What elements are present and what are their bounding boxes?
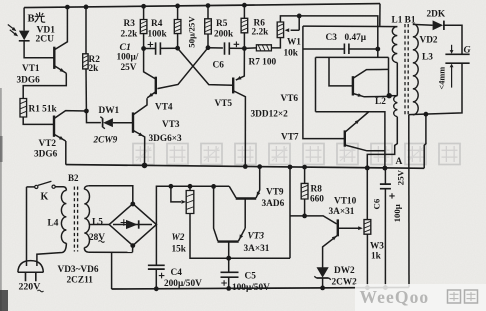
svg-text:2CU: 2CU [36,35,55,45]
svg-text:R5: R5 [216,19,228,29]
svg-text:L4: L4 [48,219,59,229]
svg-text:C3: C3 [326,33,338,43]
svg-text:2CW2: 2CW2 [332,278,358,288]
svg-text:2k: 2k [89,64,100,74]
svg-text:15k: 15k [172,245,187,255]
svg-text:50μ/25V: 50μ/25V [187,16,197,48]
svg-text:VD2: VD2 [420,36,438,46]
svg-text:C5: C5 [245,272,257,282]
svg-text:A: A [396,157,403,167]
svg-text:W3: W3 [370,242,384,252]
svg-text:3AD6: 3AD6 [262,199,285,209]
svg-text:2.2k: 2.2k [252,28,270,38]
svg-text:25V: 25V [121,63,137,73]
svg-text:2DK: 2DK [427,10,446,20]
svg-text:B: B [28,14,35,25]
svg-text:G: G [464,45,471,56]
svg-text:K: K [41,192,49,203]
svg-text:L3: L3 [422,53,433,63]
svg-text:R8: R8 [311,185,323,195]
svg-text:220V: 220V [19,282,41,293]
svg-text:25V: 25V [396,169,406,185]
svg-text:DW1: DW1 [99,106,120,116]
svg-text:C4: C4 [171,268,183,278]
svg-text:C1: C1 [120,42,131,53]
svg-text:VT5: VT5 [215,99,233,109]
svg-text:100μ: 100μ [392,204,402,222]
svg-text:10k: 10k [284,49,299,59]
svg-text:0.47μ: 0.47μ [345,33,367,43]
svg-text:W2: W2 [172,233,185,243]
svg-text:3A×31: 3A×31 [244,244,270,254]
svg-text:3DG6: 3DG6 [17,76,41,86]
svg-text:VT3: VT3 [162,120,180,130]
svg-text:100μ/: 100μ/ [117,53,139,63]
svg-text:28V: 28V [89,233,105,243]
svg-text:VT7: VT7 [281,133,299,143]
svg-text:R3: R3 [124,19,136,29]
svg-text:3A×31: 3A×31 [329,207,355,217]
svg-text:VT2: VT2 [39,139,57,149]
svg-text:100k: 100k [148,30,168,40]
svg-text:VT10: VT10 [334,197,357,207]
svg-text:B2: B2 [68,173,79,183]
svg-text:3DD12×2: 3DD12×2 [251,110,289,120]
svg-text:L5: L5 [92,218,103,228]
svg-text:R7 100: R7 100 [249,58,277,68]
svg-text:VT3: VT3 [248,232,265,242]
svg-text:C6: C6 [213,61,225,71]
svg-text:200k: 200k [214,30,234,40]
svg-text:C6: C6 [372,198,382,209]
svg-text:200μ/50V: 200μ/50V [164,279,202,289]
svg-text:W1: W1 [287,38,301,48]
svg-text:L2: L2 [375,97,386,107]
svg-text:660: 660 [310,195,324,205]
svg-text:VT6: VT6 [281,94,299,104]
svg-text:3DG6: 3DG6 [34,150,58,160]
svg-text:3DG6×3: 3DG6×3 [149,134,183,144]
svg-text:VD3~VD6: VD3~VD6 [58,265,99,275]
svg-text:100μ/50V: 100μ/50V [232,283,270,293]
svg-text:VT9: VT9 [266,188,284,198]
svg-text:1k: 1k [371,252,382,262]
svg-text:VT4: VT4 [155,103,173,113]
svg-text:2CZ11: 2CZ11 [67,276,94,286]
svg-text:<4mm: <4mm [438,67,447,90]
svg-text:L1 B1: L1 B1 [392,16,416,26]
svg-text:2CW9: 2CW9 [93,136,118,146]
svg-text:R4: R4 [151,19,163,29]
svg-text:WeeQoo: WeeQoo [360,287,430,307]
svg-text:R1 51k: R1 51k [29,105,58,115]
svg-text:VT1: VT1 [22,64,40,74]
svg-text:DW2: DW2 [334,266,355,276]
svg-text:2.2k: 2.2k [121,30,139,40]
